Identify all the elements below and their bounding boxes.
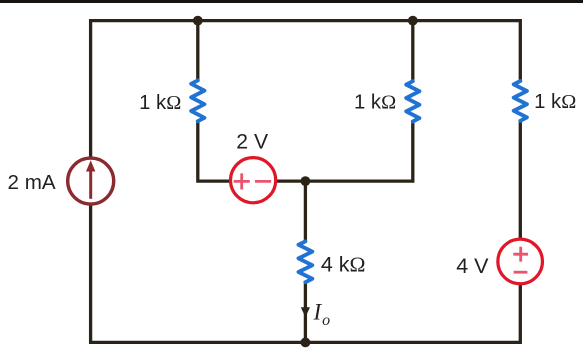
wire: left vertical below 2mA source, bottom horizontal, right vertical up to 4V source: [91, 205, 521, 342]
svg-text:2 mA: 2 mA: [8, 171, 56, 194]
voltage source V1 plus sign: [234, 173, 250, 189]
resistor R2 1kOhm zigzag: [406, 81, 419, 121]
svg-text:1 kΩ: 1 kΩ: [354, 91, 396, 113]
current source I1 2mA circle: [68, 158, 114, 204]
wire: top lead of resistor R4 from middle node: [304, 181, 307, 242]
resistor R3 1kOhm zigzag: [514, 81, 527, 121]
voltage source V1 2V circle: [231, 158, 276, 203]
node dot: top junction of R1: [193, 16, 203, 26]
svg-text:4 kΩ: 4 kΩ: [321, 253, 366, 277]
wire: left vertical, top horizontal, right vertical top lead of R3: [91, 21, 521, 158]
wire: from 2V source right side to R2 bottom lead: [276, 120, 413, 181]
current source I1 arrow head: [86, 160, 95, 171]
wire: R3 bottom lead down to 4V source top: [519, 120, 522, 239]
voltage source V2 plus sign: [513, 247, 528, 262]
wire: R1 bottom lead down and right to 2V source: [198, 121, 231, 181]
current source I1 arrow shaft: [89, 171, 92, 199]
wire: top lead of resistor R2: [411, 21, 414, 82]
node dot: bottom node: [301, 338, 311, 348]
wire: top lead of resistor R1: [196, 21, 199, 81]
wire: bottom lead of resistor R4 down to bottom node: [304, 281, 307, 343]
voltage source V2 4V circle: [498, 239, 543, 284]
node dot: top junction of R2: [408, 16, 418, 26]
output current Io arrowhead on wire: [301, 307, 310, 317]
svg-text:1 kΩ: 1 kΩ: [139, 92, 181, 114]
resistor R1 1kOhm zigzag: [191, 80, 204, 121]
node dot: middle node at 4k branch: [301, 176, 311, 186]
svg-text:2 V: 2 V: [236, 131, 269, 154]
svg-text:1 kΩ: 1 kΩ: [534, 91, 576, 113]
voltage source V2 minus sign: [514, 271, 528, 274]
top border rule: [0, 0, 583, 3]
svg-text:4 V: 4 V: [456, 254, 489, 278]
resistor R4 4kOhm zigzag: [299, 241, 313, 282]
voltage source V1 minus sign: [255, 180, 271, 183]
